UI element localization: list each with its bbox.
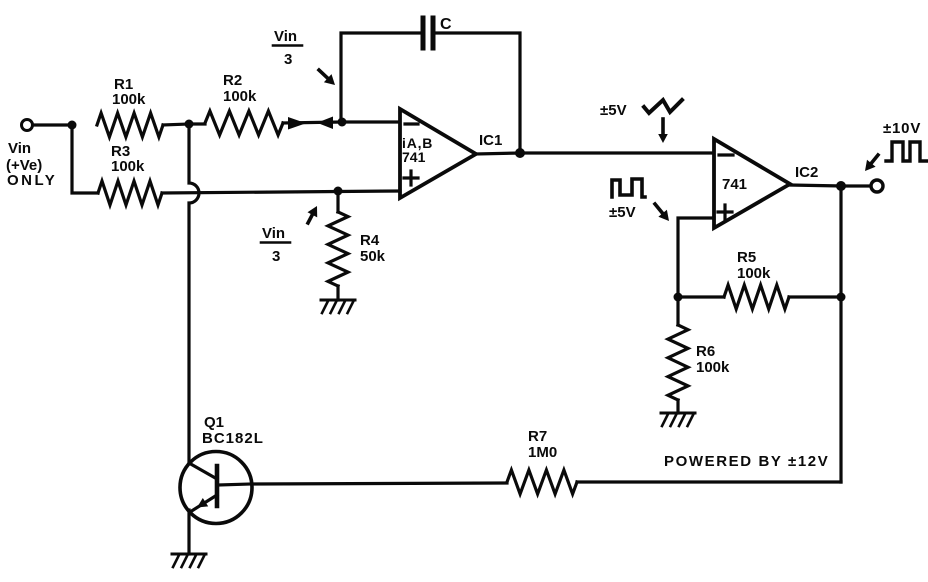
current arrow left-pointing: [317, 117, 333, 130]
resistor R1: [97, 113, 163, 137]
resistor R2: [205, 111, 283, 135]
wire right side down to bottom rail: [577, 480, 841, 483]
label Vin/3 (lower): [261, 225, 290, 265]
annotation arrow to summing node: [319, 70, 328, 78]
wire node B down to Q1 collector (with hop over R3 wire): [189, 124, 199, 462]
node D (R4 top junction): [334, 187, 343, 196]
wire node F to output terminal: [841, 184, 871, 187]
wire node H to R5: [678, 295, 724, 298]
wire R5 to node G: [789, 295, 841, 298]
wire input to node A: [33, 123, 72, 126]
ground (R6): [661, 413, 695, 426]
annotation arrow square wave to non-inverting input: [655, 204, 663, 213]
wire node F down right side: [839, 186, 842, 482]
svg-text:1M0: 1M0: [528, 444, 557, 461]
label R6 100k: [696, 343, 730, 376]
op-amp IC2: [714, 139, 790, 228]
svg-text:BC182L: BC182L: [202, 430, 264, 447]
svg-text:Q1: Q1: [204, 414, 224, 431]
current arrow right-pointing: [288, 117, 306, 130]
ground (R4): [321, 300, 355, 313]
op-amp IC1: [400, 109, 476, 198]
svg-text:Vin: Vin: [274, 28, 297, 45]
wire capacitor to IC1 output node: [435, 33, 520, 153]
node F (output junction): [836, 181, 846, 191]
capacitor C: [423, 18, 433, 48]
node C (summing junction): [338, 118, 347, 127]
label R1 100k: [112, 76, 146, 108]
wire R4 to ground: [336, 286, 339, 300]
wire IC2 output to node F: [790, 185, 841, 186]
label R7 1M0: [528, 428, 557, 461]
svg-text:R2: R2: [223, 72, 242, 89]
resistor R3: [98, 181, 162, 205]
label Vin (+Ve) ONLY: [6, 140, 57, 189]
square wave symbol (output): [886, 142, 927, 161]
annotation arrow to non-inverting input: [308, 215, 312, 223]
label Vin/3 (top): [273, 28, 302, 68]
transistor Q1: [180, 452, 252, 524]
svg-text:100k: 100k: [737, 265, 771, 282]
svg-text:±5V: ±5V: [600, 102, 627, 119]
resistor R7: [507, 470, 577, 494]
svg-text:Vin: Vin: [8, 140, 31, 157]
node A (input junction): [68, 121, 77, 130]
svg-text:R7: R7: [528, 428, 547, 445]
wire IC2 non-inverting input to node H: [678, 218, 714, 297]
wire node A down to R3: [72, 125, 98, 193]
wire R1 to node B: [163, 124, 189, 125]
output terminal: [871, 180, 883, 192]
label R4 50k: [360, 232, 386, 265]
svg-text:POWERED BY ±12V: POWERED BY ±12V: [664, 453, 829, 470]
wire node H to R6: [676, 297, 679, 325]
svg-text:741: 741: [402, 149, 426, 165]
svg-text:100k: 100k: [696, 359, 730, 376]
wire node B to R2: [189, 122, 205, 125]
svg-text:IC2: IC2: [795, 164, 818, 181]
svg-text:R4: R4: [360, 232, 380, 249]
svg-text:ONLY: ONLY: [7, 172, 57, 189]
svg-text:R6: R6: [696, 343, 715, 360]
wire IC1 output to node E: [476, 153, 520, 154]
svg-text:741: 741: [722, 176, 747, 193]
wire R7 to Q1 base: [251, 483, 507, 484]
svg-text:100k: 100k: [112, 91, 146, 108]
svg-text:3: 3: [272, 248, 280, 265]
svg-text:3: 3: [284, 51, 292, 68]
resistor R5: [724, 285, 789, 309]
node H (R5/R6 junction): [674, 293, 683, 302]
annotation arrow output waveform: [871, 155, 878, 163]
wire node D to R4: [336, 191, 339, 212]
resistor R6: [668, 325, 688, 400]
svg-text:100k: 100k: [223, 88, 257, 105]
svg-text:C: C: [440, 16, 452, 33]
resistor R4: [328, 212, 348, 286]
input terminal Vin: [22, 120, 33, 131]
wire R2 to IC1 inverting input: [283, 122, 397, 123]
label R2 100k: [223, 72, 257, 105]
svg-text:±10V: ±10V: [883, 120, 921, 137]
svg-text:100k: 100k: [111, 158, 145, 175]
svg-text:±5V: ±5V: [609, 204, 636, 221]
ground (Q1 emitter): [172, 554, 206, 567]
triangle wave symbol: [644, 100, 682, 113]
svg-text:R5: R5: [737, 249, 756, 266]
wire node C up to capacitor feedback: [341, 33, 420, 122]
node B (R1/R2/collector junction): [185, 120, 194, 129]
svg-text:IC1: IC1: [479, 132, 502, 149]
svg-text:Vin: Vin: [262, 225, 285, 242]
wire R6 to ground: [676, 400, 679, 413]
node E (IC1 output junction): [515, 148, 525, 158]
label R5 100k: [737, 249, 771, 282]
node G (R5 right junction): [837, 293, 846, 302]
square wave symbol (±5V feedback): [612, 179, 645, 197]
label R3 100k: [111, 143, 145, 175]
annotation arrow triangle wave to wire: [661, 119, 665, 134]
label Q1 BC182L: [202, 414, 264, 447]
wire R3 to IC1 non-inverting input: [162, 191, 400, 193]
svg-text:50k: 50k: [360, 248, 386, 265]
wire node E to IC2 inverting input: [520, 151, 714, 154]
wire Q1 emitter to ground: [187, 510, 190, 554]
